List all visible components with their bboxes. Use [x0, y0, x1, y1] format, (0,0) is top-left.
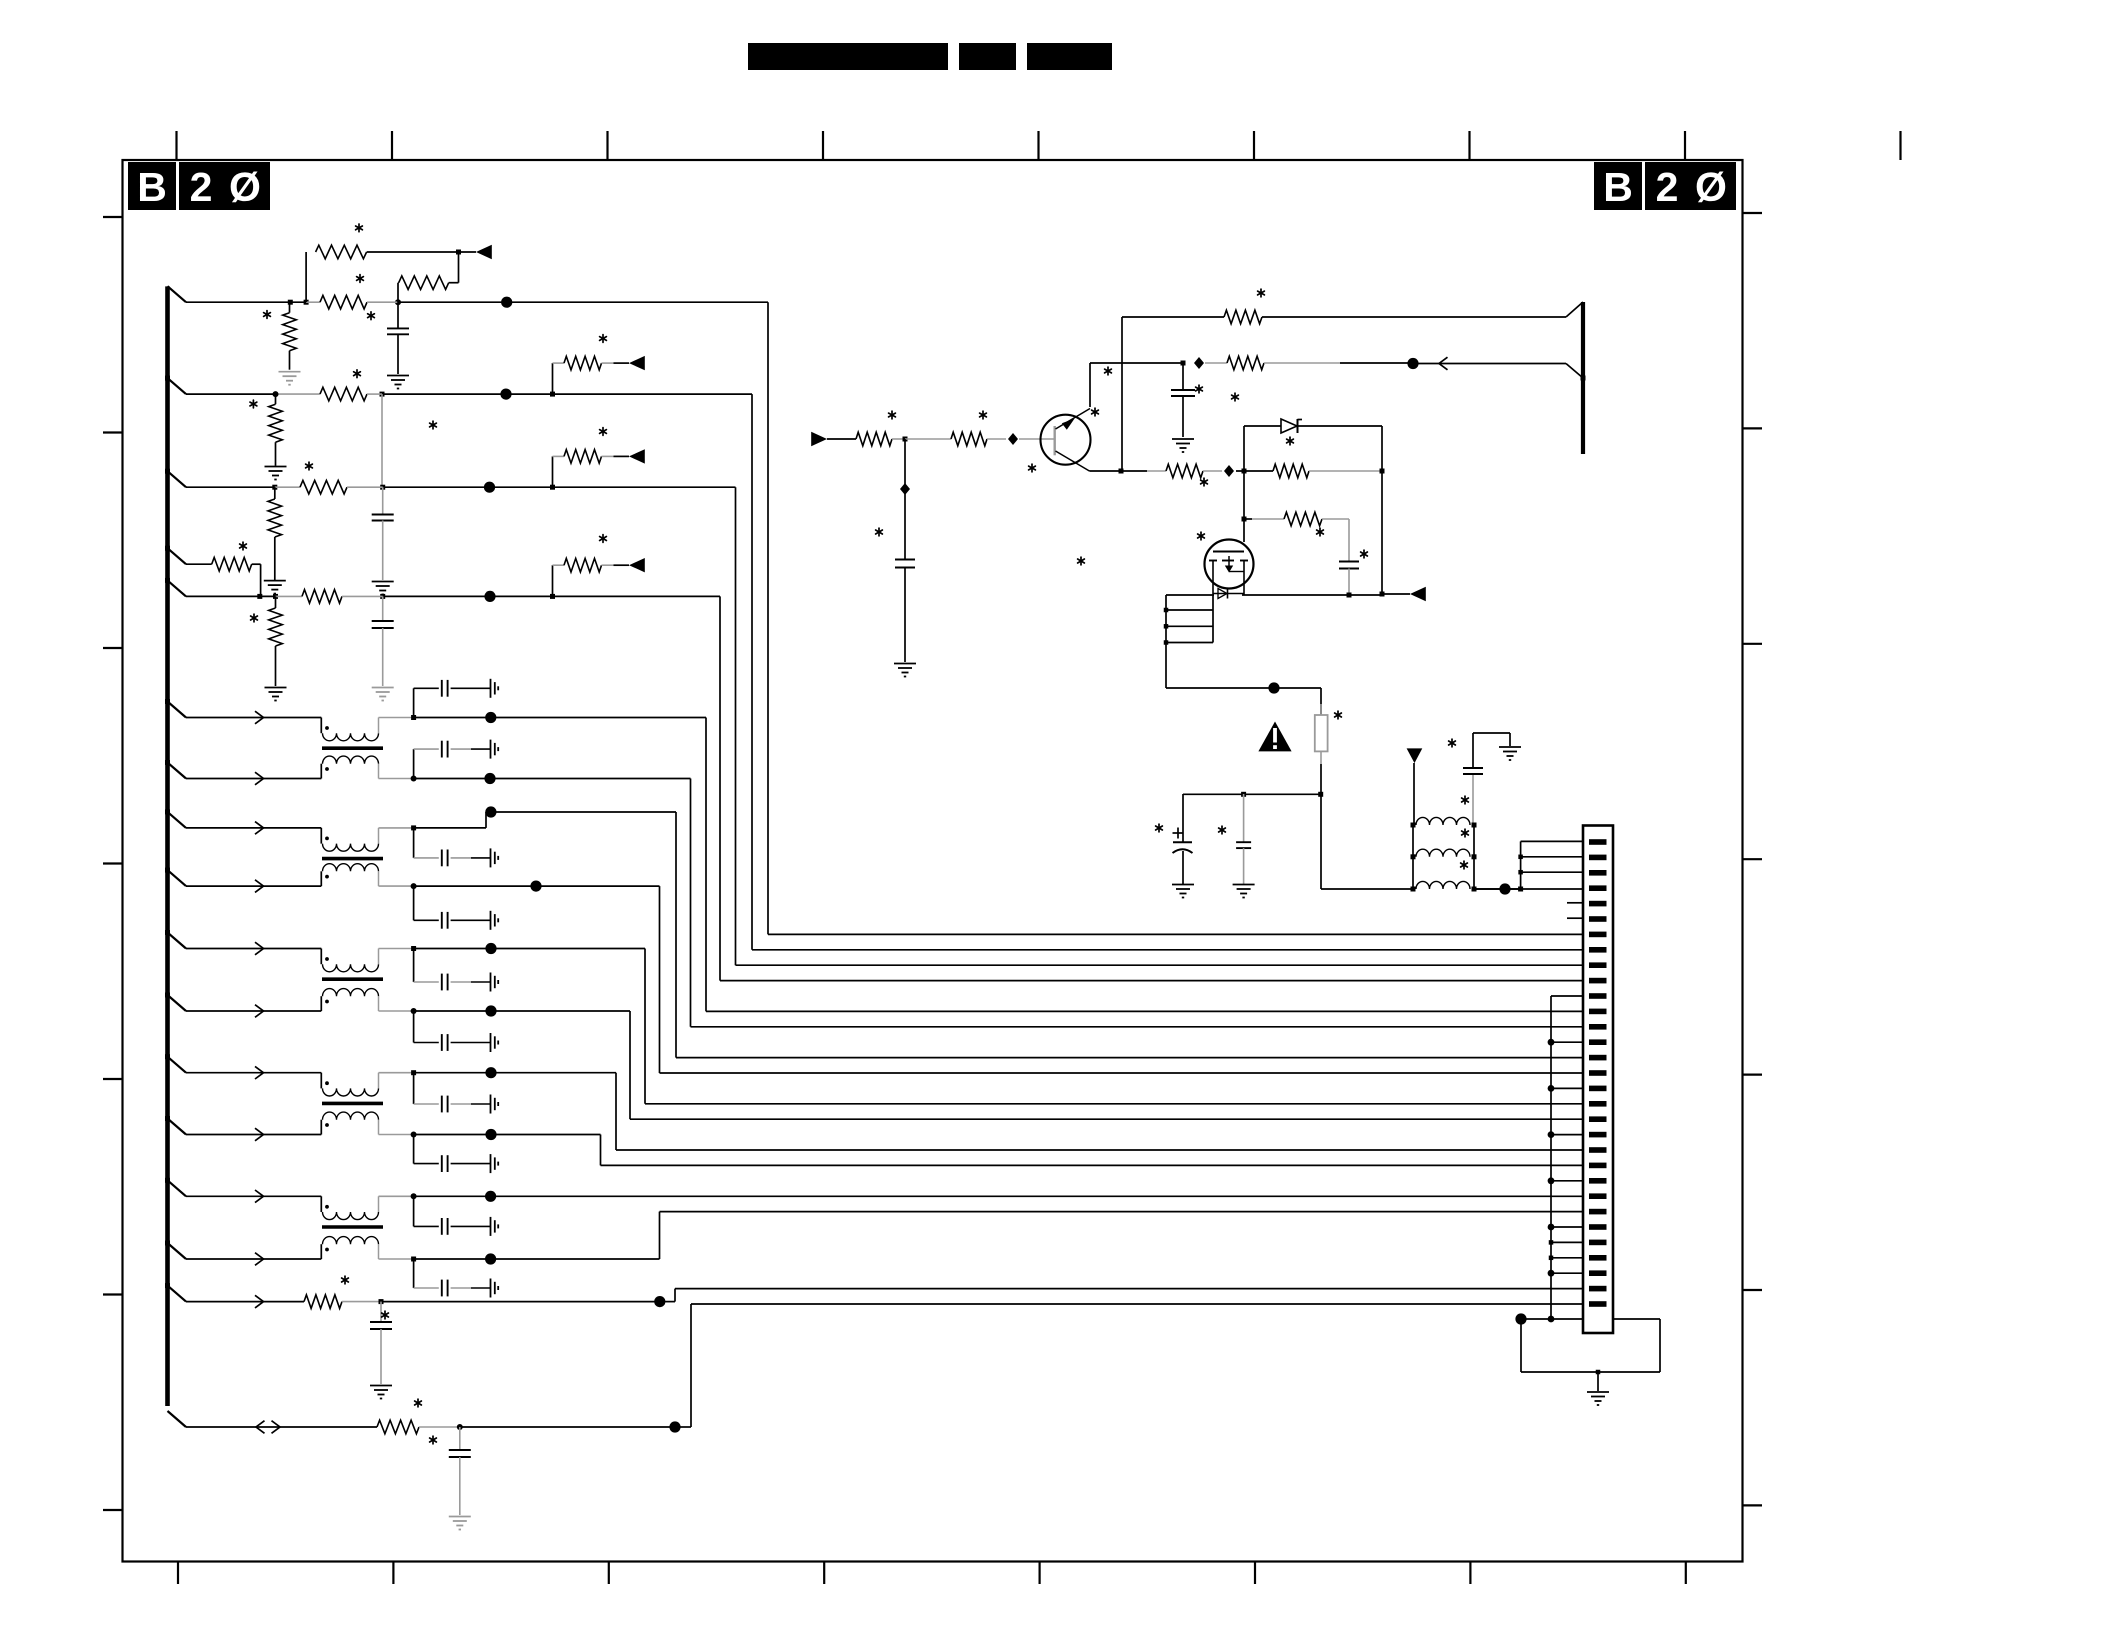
line 11 output — [414, 1010, 630, 1012]
resistor Rb2 — [905, 438, 951, 440]
ground bus stub — [1548, 1085, 1555, 1092]
capacitor C_t1 row to chassis — [413, 688, 415, 717]
pin 9 — [1589, 962, 1607, 968]
ground under C17 (grey) — [449, 1516, 471, 1518]
line 1 — [186, 301, 306, 303]
wire — [751, 394, 753, 950]
pin 12 — [1589, 1009, 1607, 1015]
phase dot — [325, 875, 329, 879]
pin 31 — [1589, 1301, 1607, 1307]
line 14 output (direct to connector) — [414, 1195, 1583, 1197]
resistor R3b (vertical below line 3) — [274, 487, 276, 499]
capacitor Cf (grey) — [1243, 794, 1245, 842]
pin 16 — [1589, 1070, 1607, 1076]
pin 5 — [1589, 901, 1607, 907]
transformer T3 core — [322, 977, 383, 981]
phase dot — [325, 726, 329, 730]
capacitor C17 — [459, 1427, 461, 1450]
wire up to R1c — [305, 252, 307, 302]
line 3 — [186, 486, 275, 488]
capacitor C1a to ground — [397, 302, 399, 328]
capacitor C_t5 row to chassis — [413, 949, 415, 983]
phase dot — [325, 767, 329, 771]
resistor R1c (to off-page arrow) — [316, 245, 367, 259]
fiducial ticks bottom — [177, 1562, 179, 1585]
B20 grid label left — [128, 162, 176, 210]
ground under Cb — [894, 663, 916, 665]
pin 14 — [1589, 1039, 1607, 1045]
left supply bus (thick) — [165, 286, 170, 1406]
resistor Rc1 — [1205, 362, 1227, 364]
connector J1 body — [1583, 826, 1613, 1334]
ground bus stub — [1548, 1131, 1555, 1138]
ground bus stub — [1548, 1270, 1555, 1277]
wire — [615, 1073, 617, 1150]
resistor R5b vertical below — [275, 596, 277, 608]
resistor R3c to off-page arrow — [552, 456, 554, 487]
transformer T4 primary line — [186, 1072, 321, 1074]
resistor R2b (line 2 series) — [320, 387, 367, 401]
svg-text:B: B — [1603, 164, 1633, 210]
resistor R17 — [377, 1420, 419, 1434]
ground under C1a — [387, 375, 409, 377]
ground under R3b — [264, 580, 286, 582]
svg-text:2: 2 — [190, 164, 213, 210]
MOSFET Q2 — [1205, 540, 1254, 589]
chassis ground (rotated) — [490, 1095, 492, 1114]
wire — [705, 718, 707, 1012]
wire — [719, 596, 721, 980]
transformer T5 secondary line — [186, 1258, 321, 1260]
wire — [644, 949, 646, 1104]
ground bus stub — [1548, 1224, 1555, 1231]
fiducial ticks right — [1743, 212, 1763, 214]
chassis ground (rotated) — [490, 911, 492, 930]
pin 2 — [1589, 855, 1607, 861]
capacitor C_t10 row to chassis — [413, 1259, 415, 1288]
wire — [767, 302, 769, 934]
ground under Cf — [1233, 884, 1255, 886]
pin 6 — [1589, 916, 1607, 922]
chassis ground (rotated) — [490, 740, 492, 759]
B20 grid label right — [1594, 162, 1642, 210]
pin 18 — [1589, 1101, 1607, 1107]
resistor Re1 — [1166, 464, 1203, 478]
ground for shield — [1587, 1391, 1609, 1393]
chassis ground (rotated) — [490, 679, 492, 698]
line 7 output — [414, 778, 691, 780]
pin 30 — [1589, 1286, 1607, 1292]
pin 13 — [1589, 1024, 1607, 1030]
capacitor C_t8 row to chassis — [413, 1135, 415, 1164]
ground for Ch — [1499, 746, 1521, 748]
title redaction bars — [748, 43, 948, 70]
pin 8 — [1589, 947, 1607, 953]
chassis ground (rotated) — [490, 1033, 492, 1052]
resistor R1d (feedback) — [397, 283, 399, 303]
wire — [629, 1011, 631, 1119]
shield loop around connector — [1520, 1319, 1522, 1372]
drain rail — [1242, 594, 1382, 596]
chassis ground (rotated) — [490, 848, 492, 867]
transformer T2 secondary line — [186, 885, 321, 887]
pin 28 — [1589, 1255, 1607, 1261]
chassis ground (rotated) — [490, 1279, 492, 1298]
pin 1 — [1589, 839, 1607, 845]
resistor R4 — [212, 557, 252, 571]
pin 11 — [1589, 993, 1607, 999]
ground under C5 (grey) — [372, 687, 394, 689]
inductor Lb1 — [1416, 817, 1470, 825]
line 10 output — [414, 948, 645, 950]
source stub 3 — [1164, 640, 1169, 645]
pin 15 — [1589, 1055, 1607, 1061]
line 8 output (jog up) — [414, 827, 486, 829]
wire to fuse — [1166, 687, 1321, 689]
pin 7 — [1589, 932, 1607, 938]
source rail — [1166, 594, 1214, 596]
phase dot — [325, 837, 329, 841]
pin 20 — [1589, 1132, 1607, 1138]
transformer T2 core — [322, 857, 383, 861]
connector stub pins 5,6 — [1567, 902, 1583, 904]
pin 25 — [1589, 1209, 1607, 1215]
transformer T3 primary line — [186, 948, 321, 950]
inductor Lb3 — [1416, 881, 1470, 889]
connector feed bus (top) — [1520, 841, 1522, 889]
inductor Lb2 — [1416, 849, 1470, 857]
svg-text:B: B — [137, 164, 167, 210]
capacitor C_t4 row to chassis — [413, 886, 415, 920]
off-page arrow right of MOSFET — [1382, 593, 1410, 595]
line 16 — [186, 1301, 304, 1303]
page border frame — [123, 160, 1743, 1562]
wire — [690, 779, 692, 1027]
phase dot — [325, 1000, 329, 1004]
wire — [659, 886, 661, 1073]
source stub 2 — [1164, 624, 1169, 629]
source stub 1 — [1164, 608, 1169, 613]
line 15 output (riser) — [414, 1258, 660, 1260]
fuse F1 — [1320, 704, 1322, 764]
test point dot line 1 — [501, 297, 512, 308]
line 5 — [186, 595, 275, 597]
pin 10 — [1589, 978, 1607, 984]
pin 29 — [1589, 1270, 1607, 1276]
ground (grey) under R1a — [279, 371, 301, 373]
collector node — [1089, 363, 1091, 407]
ground under Ce — [1172, 884, 1194, 886]
ground under R2a — [265, 466, 287, 468]
capacitor C_t3 row to chassis — [413, 828, 415, 858]
pin 23 — [1589, 1178, 1607, 1184]
pin 3 — [1589, 870, 1607, 876]
nc stubs — [1549, 1240, 1554, 1245]
electrolytic capacitor Ce — [1182, 794, 1184, 842]
line 4 — [186, 563, 212, 565]
pin 24 — [1589, 1193, 1607, 1199]
phase dot — [325, 957, 329, 961]
svg-text:2: 2 — [1656, 164, 1679, 210]
transformer T1 primary line — [186, 717, 321, 719]
line 17 — [186, 1426, 377, 1428]
transformer T1 secondary line — [186, 778, 321, 780]
line 13 output — [414, 1134, 601, 1136]
pin 26 — [1589, 1224, 1607, 1230]
pin 17 — [1589, 1086, 1607, 1092]
ground under C16 — [370, 1385, 392, 1387]
fiducial ticks top — [175, 131, 177, 160]
resistor R5a (line 5 series, grey) — [276, 595, 303, 597]
transformer T2 primary line — [186, 827, 321, 829]
diode D1 loop — [1243, 426, 1245, 471]
resistor Rg2 — [1284, 512, 1322, 526]
line 12 output — [414, 1072, 616, 1074]
connector ground bus — [1550, 996, 1552, 1319]
chassis ground (rotated) — [490, 1154, 492, 1173]
transformer T4 core — [322, 1102, 383, 1106]
transformer T5 primary line — [186, 1195, 321, 1197]
capacitor C3 (column) — [382, 487, 384, 514]
ground under R5b — [265, 687, 287, 689]
resistor R2c to off-page arrow — [552, 363, 554, 394]
capacitor C_t2 row to chassis — [413, 749, 415, 778]
line 9 output — [414, 885, 660, 887]
fiducial ticks left — [103, 216, 123, 218]
shield row — [1515, 1313, 1526, 1324]
capacitor C16 — [380, 1302, 382, 1322]
supply node line — [1183, 793, 1321, 795]
emitter line — [1089, 470, 1147, 472]
pin 27 — [1589, 1240, 1607, 1246]
wire — [675, 812, 677, 1058]
resistor R3a (line 3 series) — [275, 486, 300, 488]
capacitor Cc to ground — [1182, 363, 1184, 390]
resistor R16 — [304, 1295, 342, 1309]
transformer T3 secondary line — [186, 1010, 321, 1012]
net bus bar (thick) — [1581, 302, 1585, 454]
resistor R2a (vertical) — [275, 394, 277, 404]
chassis ground (rotated) — [490, 1217, 492, 1236]
ground bus stub — [1548, 1177, 1555, 1184]
resistor Re2 — [1224, 310, 1262, 324]
resistor R1b (line 1 series) — [306, 301, 320, 303]
capacitor C_t7 row to chassis — [413, 1073, 415, 1104]
off-page arrow row1 — [459, 251, 477, 253]
wire — [600, 1135, 602, 1166]
value placeholders (asterisks) — [358, 224, 360, 232]
wire — [735, 487, 737, 965]
capacitor C_t9 row to chassis — [413, 1196, 415, 1226]
phase dot — [325, 1205, 329, 1209]
capacitor Cg — [1339, 561, 1359, 563]
phase dot — [325, 1248, 329, 1252]
junction — [395, 299, 401, 305]
line 2 — [186, 393, 278, 395]
capacitor Ch (top of coil block) — [1472, 774, 1474, 825]
pin 4 — [1589, 885, 1607, 891]
ground under C3 — [372, 581, 394, 583]
resistor R5c to off-page arrow — [552, 565, 554, 596]
transistor Q1 — [1041, 415, 1091, 465]
capacitor C5 below line 5 — [382, 596, 384, 621]
inter-line column line2-line3 — [381, 394, 383, 487]
ground under Cc — [1172, 438, 1194, 440]
emitter feedback line — [1121, 317, 1123, 471]
capacitor C_t6 row to chassis — [413, 1011, 415, 1043]
capacitor Cb — [895, 559, 915, 561]
antenna marker — [1407, 748, 1423, 763]
gate resistor chain — [1243, 471, 1245, 542]
diamond marker — [1008, 433, 1018, 445]
phase dot — [325, 1123, 329, 1127]
transformer T1 core — [322, 746, 383, 750]
resistor Rg1 — [1273, 464, 1309, 478]
line 6 output — [414, 717, 706, 719]
warning triangle — [1258, 722, 1291, 752]
transformer T4 secondary line — [186, 1134, 321, 1136]
ground bus stub — [1548, 1039, 1555, 1046]
source/drain pins — [1212, 561, 1214, 596]
transformer T5 core — [322, 1225, 383, 1229]
svg-text:Ø: Ø — [229, 164, 261, 210]
resistor R1a (vertical, to ground) — [289, 302, 291, 313]
pin 22 — [1589, 1163, 1607, 1169]
phase dot — [325, 1081, 329, 1085]
svg-text:Ø: Ø — [1695, 164, 1727, 210]
base RC to ground — [904, 439, 906, 486]
resistor Rb1 — [856, 432, 892, 446]
chassis ground (rotated) — [490, 973, 492, 992]
pin 21 — [1589, 1147, 1607, 1153]
pin 19 — [1589, 1116, 1607, 1122]
bus branch chamfers — [168, 286, 187, 302]
off-page input arrow — [811, 432, 827, 446]
node squares line 1 — [288, 300, 293, 305]
